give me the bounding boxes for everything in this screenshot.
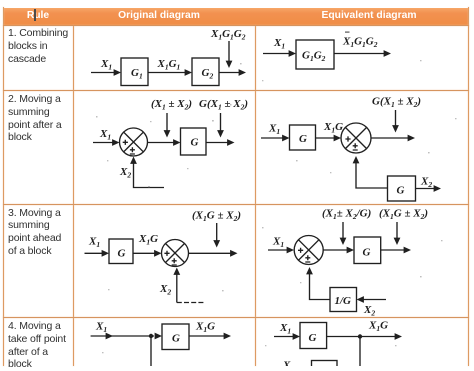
- svg-text:X1G1G2: X1G1G2: [210, 28, 246, 42]
- wire G output: [189, 333, 231, 340]
- wire summing point output: [371, 135, 415, 142]
- svg-text:G: G: [309, 332, 317, 344]
- svg-text:G(X1 ± X2): G(X1 ± X2): [199, 98, 248, 112]
- rule cell text row4: [8, 320, 72, 371]
- svg-text:X1: X1: [99, 128, 111, 142]
- block G (row3 orig): [109, 239, 133, 264]
- block G (row4 eq): [300, 323, 327, 349]
- svg-text:G: G: [397, 185, 405, 197]
- summing junction S1: [120, 128, 148, 156]
- arrow pointing down to output wire: [226, 41, 233, 68]
- svg-text:X1: X1: [282, 360, 294, 367]
- svg-text:(X1± X2/G): (X1± X2/G): [322, 208, 371, 222]
- grid horizontal border row1/row2: [3, 90, 469, 92]
- wire input to G1G2: [263, 50, 296, 57]
- wire G to summing point: [133, 250, 162, 257]
- svg-text:G: G: [299, 133, 307, 145]
- label (X1 +/- X2): [151, 98, 192, 112]
- block G (row2 eq upper): [290, 125, 316, 150]
- label X2 (row3 eq): [363, 304, 375, 318]
- label X1 partial (second line, cut): [282, 360, 294, 371]
- wire lower G output X2 to the right: [416, 185, 442, 192]
- wire lower G to summing point bottom: [353, 156, 388, 188]
- arrow down to output wire (X1G +/- X2): [394, 222, 401, 245]
- wire 1/G to summing point bottom: [306, 267, 330, 300]
- label G(X1 +/- X2): [199, 98, 248, 112]
- wire input to G1: [91, 69, 121, 76]
- svg-text:1/G: 1/G: [335, 295, 352, 307]
- text caret in Rule cell: [34, 9, 36, 21]
- svg-text:X1G: X1G: [368, 320, 388, 334]
- grid horizontal border under header: [3, 25, 469, 27]
- label X1 (row1 eq input): [273, 37, 285, 51]
- block 1/G: [330, 288, 357, 312]
- label X1G1G2 (eq): [342, 36, 378, 50]
- label X1 (row2 input): [99, 128, 111, 142]
- svg-text:G2: G2: [202, 67, 214, 81]
- svg-text:(X1G ± X2): (X1G ± X2): [192, 210, 241, 224]
- wire G1G2 output: [334, 50, 391, 57]
- grid vertical border col2/col3: [255, 25, 257, 366]
- svg-text:X1: X1: [273, 37, 285, 51]
- label (X1 +/- X2/G): [322, 208, 371, 222]
- block G1: [121, 58, 148, 86]
- label X1 (row4 input): [95, 321, 107, 335]
- label X1 (row4 eq input): [279, 322, 291, 336]
- takeoff node: [149, 334, 153, 338]
- rule cell text row3: [8, 207, 72, 258]
- svg-text:G: G: [191, 137, 199, 149]
- wire G output: [206, 139, 235, 146]
- grid vertical border col1/col2: [73, 25, 75, 366]
- wire takeoff drop (row4 eq): [359, 337, 361, 367]
- summing junction S4: [294, 236, 323, 265]
- svg-text:(X1 ± X2): (X1 ± X2): [151, 98, 192, 112]
- rule cell text row1: [8, 27, 72, 65]
- svg-text:X1: X1: [268, 123, 280, 137]
- label X2 (row2): [119, 166, 131, 180]
- svg-text:(X1G ± X2): (X1G ± X2): [379, 208, 428, 222]
- summing junction S2: [341, 123, 371, 153]
- wire X2 into 1/G from right: [357, 296, 387, 303]
- svg-text:X1G: X1G: [138, 233, 158, 247]
- wire G to summing point: [316, 135, 342, 142]
- svg-text:G: G: [363, 247, 371, 259]
- wire G2 output: [219, 69, 246, 76]
- label X1G (row4): [195, 320, 215, 334]
- label X1G1G2: [210, 28, 246, 42]
- label X1G1: [157, 58, 181, 72]
- arrow down to wire (X1 +/- X2/G): [340, 222, 347, 245]
- grid vertical border right: [468, 7, 470, 366]
- svg-text:X1: X1: [100, 58, 112, 72]
- label X1 (row3 eq input): [272, 236, 284, 250]
- arrow down to wire (X1 +/- X2): [164, 113, 171, 138]
- takeoff node (row4 eq): [358, 334, 362, 338]
- svg-text:X2: X2: [159, 283, 171, 297]
- block G (row4 orig): [162, 324, 189, 350]
- grid horizontal border row2/row3: [3, 204, 469, 206]
- wire G output with takeoff: [327, 333, 402, 340]
- label X2 (row3): [159, 283, 171, 297]
- block G1G2: [296, 40, 334, 69]
- label X1G (row4 eq): [368, 320, 388, 334]
- wire X2 into summing point bottom: [130, 157, 164, 188]
- wire G1 to G2: [148, 69, 192, 76]
- svg-text:G(X1 ± X2): G(X1 ± X2): [372, 96, 421, 110]
- wire input to G: [274, 333, 300, 340]
- label X1 (row2 eq input): [268, 123, 280, 137]
- block G (row2 orig): [181, 128, 207, 155]
- svg-text:X1G1: X1G1: [157, 58, 181, 72]
- label X1 (row3 input): [88, 236, 100, 250]
- svg-text:X2: X2: [363, 304, 375, 318]
- svg-text:G1G2: G1G2: [302, 50, 326, 64]
- wire takeoff drop: [150, 336, 152, 366]
- wire input to summing point: [93, 139, 120, 146]
- block G2: [192, 58, 219, 86]
- summing junction S3: [162, 240, 189, 267]
- wire summing point to G: [323, 247, 354, 254]
- svg-text:X2: X2: [420, 176, 432, 190]
- wire input to G: [85, 250, 110, 257]
- svg-text:X1: X1: [272, 236, 284, 250]
- wire node to G: [151, 333, 162, 340]
- label X1G: [323, 121, 343, 135]
- scan noise speckles: [96, 60, 457, 353]
- svg-text:G1: G1: [131, 67, 143, 81]
- svg-text:G: G: [172, 333, 180, 345]
- header band: [3, 8, 469, 25]
- arrow down to output wire: [213, 223, 220, 248]
- svg-text:X1: X1: [279, 322, 291, 336]
- svg-text:X2: X2: [119, 166, 131, 180]
- grid horizontal border row3/row4: [3, 317, 469, 319]
- label X1G (row3): [138, 233, 158, 247]
- label (X1G +/- X2) eq: [379, 208, 428, 222]
- arrow down to output wire: [392, 110, 399, 133]
- svg-text:X1: X1: [95, 321, 107, 335]
- svg-text:G: G: [118, 248, 126, 260]
- svg-text:X1G: X1G: [195, 320, 215, 334]
- header column text: Equivalent diagram: [262, 10, 474, 21]
- header column text: Original diagram: [68, 10, 250, 21]
- label X2 (row2 eq): [420, 176, 432, 190]
- block G (row2 eq lower): [388, 176, 416, 201]
- wire input to summing point: [268, 247, 294, 254]
- block G (row3 eq): [354, 237, 381, 264]
- svg-text:X1: X1: [88, 236, 100, 250]
- wire summing point to G: [148, 139, 181, 146]
- rule cell text row2: [8, 93, 72, 144]
- svg-text:X1G1G2: X1G1G2: [342, 36, 378, 50]
- wire input with mid arrow: [91, 333, 151, 340]
- svg-text:X1G: X1G: [323, 121, 343, 135]
- label (X1G +/- X2): [192, 210, 241, 224]
- grid vertical border left: [3, 7, 5, 366]
- wire input to G: [261, 135, 290, 142]
- label X1 (row1 input): [100, 58, 112, 72]
- wire G output: [381, 247, 411, 254]
- block partial (second line, cut): [312, 361, 338, 371]
- scan speck above label: [345, 32, 350, 33]
- arrow down to output wire G(X1 +/- X2): [217, 113, 224, 138]
- wire X2 into summing point bottom: [173, 268, 205, 303]
- label G(X1 +/- X2) eq: [372, 96, 421, 110]
- header column text: Rule: [3, 10, 73, 21]
- wire summing point output: [189, 250, 238, 257]
